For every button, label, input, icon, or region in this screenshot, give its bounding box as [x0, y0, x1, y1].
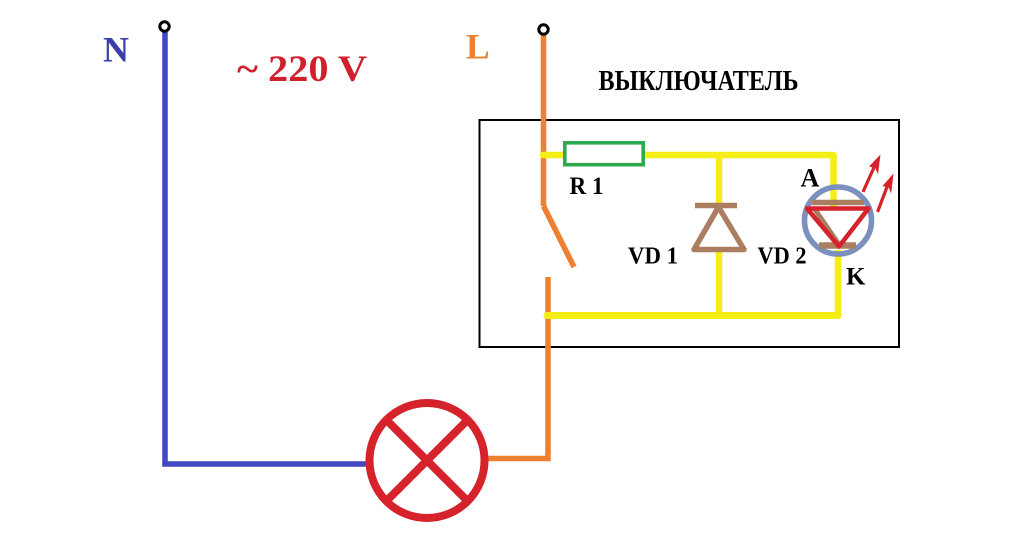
wire (yellow from VD1 anode down to bottom rail): [716, 249, 723, 316]
wire N (blue, from terminal N down and right to lamp): [165, 32, 366, 464]
svg-text:N: N: [103, 30, 129, 70]
LED VD2 brown top bar: [812, 200, 864, 206]
LED VD2 brown cathode bar: [819, 242, 856, 248]
svg-text:A: A: [801, 164, 820, 193]
LED VD2 circle (blue-gray ring): [805, 187, 872, 254]
diode VD1 cathode bar (brown): [695, 203, 737, 209]
wire L (orange, from terminal L down to switch pole): [541, 35, 547, 206]
wire (yellow from R1 to LED branch, top): [644, 152, 834, 159]
wire (yellow from LED cathode down to bottom rail): [835, 250, 842, 316]
diode VD1 triangle (brown): [694, 207, 744, 250]
svg-text:R 1: R 1: [570, 173, 604, 200]
LED VD2 red triangle: [807, 209, 869, 247]
enclosure box of switch: [480, 120, 900, 347]
LED VD2 brown inner diagonal: [814, 208, 840, 246]
svg-text:VD 1: VD 1: [628, 243, 678, 270]
svg-text:~ 220 V: ~ 220 V: [237, 49, 367, 90]
svg-text:K: K: [846, 264, 866, 291]
wire (yellow drop to VD1 cathode): [716, 152, 723, 204]
resistor R1 (green box): [565, 143, 643, 165]
wire (yellow drop into LED anode): [830, 155, 837, 208]
svg-text:ВЫКЛЮЧАТЕЛЬ: ВЫКЛЮЧАТЕЛЬ: [599, 65, 799, 97]
wire (yellow stub from switch pole to R1): [543, 152, 566, 159]
switch SA1 blade (orange): [544, 206, 575, 267]
light emission arrow 1 (red): [863, 155, 881, 193]
wire (orange, lower switch contact down to lamp): [486, 277, 548, 459]
svg-text:VD 2: VD 2: [758, 243, 807, 270]
terminal L: [539, 25, 548, 34]
lamp EL1 (red circle with cross): [370, 403, 485, 518]
svg-text:L: L: [466, 27, 490, 67]
wire (yellow bottom rail): [547, 312, 838, 319]
light emission arrow 2 (red): [878, 174, 894, 213]
terminal N: [160, 22, 169, 31]
